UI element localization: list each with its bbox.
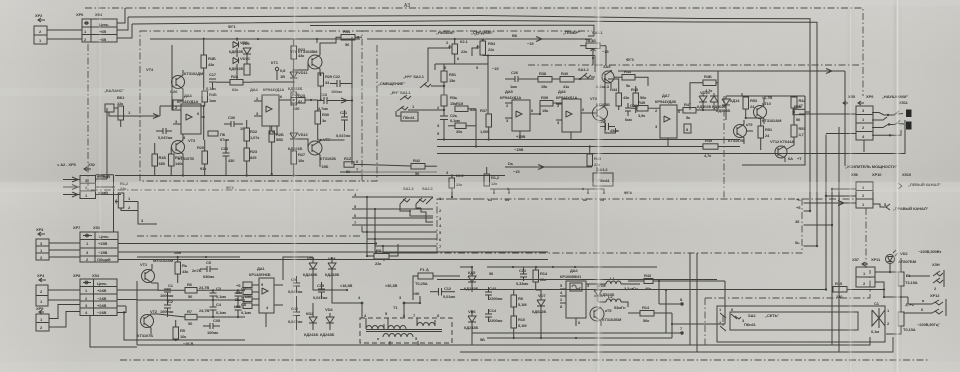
wire X53 -15 out bbox=[118, 251, 548, 253]
contact K2.2 bbox=[446, 170, 464, 198]
wire drop to mains a bbox=[689, 253, 691, 345]
capacitor C40 bbox=[288, 296, 302, 330]
wire mid pot bus bbox=[483, 54, 595, 95]
resistor R28 bbox=[269, 99, 295, 175]
resistor R6 bbox=[158, 282, 245, 299]
wire X56 pins bbox=[826, 188, 886, 207]
resistor R15 bbox=[833, 281, 885, 299]
resistor R8 22k bbox=[367, 244, 398, 266]
wire third rail bbox=[310, 25, 594, 36]
connector XP4 bbox=[36, 273, 48, 306]
block FG3 bottom dash-dot bbox=[437, 198, 862, 200]
capacitor C6 bbox=[156, 128, 172, 134]
wire C1 to box bbox=[866, 306, 893, 314]
wire bottom filter rail bbox=[150, 339, 245, 341]
wire X54 row2 out bbox=[117, 24, 132, 38]
block FG2 dash-dot border bbox=[140, 24, 362, 190]
wire XP3 rows to X53 bbox=[49, 243, 80, 257]
capacitor C22 bbox=[330, 74, 352, 94]
switch SA2 contacts bbox=[717, 307, 858, 331]
wire bias arrow line bbox=[505, 161, 592, 174]
block tone-control dash-dot border bbox=[362, 31, 592, 181]
connector XP12 arrows bbox=[918, 298, 943, 305]
resistor R35 82k bbox=[444, 101, 476, 112]
mains dash-dot enclosure bbox=[705, 270, 870, 345]
capacitor C8f bbox=[235, 300, 252, 317]
transformer core bbox=[366, 330, 442, 332]
wire bottom bus1 bbox=[137, 337, 870, 345]
resistor R11ps bbox=[628, 305, 672, 323]
wire DA7 out to right bbox=[618, 69, 845, 111]
capacitor C05 bbox=[203, 318, 221, 335]
regulator DA1 bbox=[234, 266, 283, 327]
wire bridge to transformer bbox=[313, 278, 363, 304]
wire VT7 links bbox=[297, 97, 344, 148]
wire FG2 vertical feed left bbox=[160, 45, 172, 116]
wire X57 to LED bbox=[875, 272, 898, 298]
wire +6V rail top bbox=[128, 16, 810, 212]
inductor L1 bbox=[592, 276, 640, 291]
wire X54 header out bbox=[117, 8, 125, 23]
terminal 8 bbox=[658, 280, 684, 306]
node FG4 pin ladder bbox=[439, 196, 442, 249]
wire mains feed b bbox=[460, 289, 826, 291]
label right channel bbox=[884, 202, 929, 211]
resistor R10b bbox=[152, 143, 166, 176]
wire preamp out bus3 bbox=[352, 213, 433, 218]
wire out cluster links bbox=[726, 96, 764, 131]
resistor R55 bbox=[787, 112, 806, 149]
resistor R26 bbox=[291, 92, 318, 111]
resistor R30 bbox=[315, 100, 330, 140]
capacitor C2f bbox=[160, 299, 174, 317]
transformer T1 secondary bbox=[377, 334, 418, 342]
resistor R38 bbox=[538, 71, 560, 89]
diode VD7 bbox=[532, 290, 546, 338]
wire right fan vertical 3 bbox=[838, 127, 840, 352]
sheet title A3 bbox=[404, 3, 410, 9]
wire top filter rail bbox=[137, 256, 240, 258]
capacitor C26 bbox=[505, 70, 538, 89]
resistor R40 bbox=[560, 71, 594, 89]
resistor R54 out bbox=[793, 104, 810, 122]
wire XP2 to X54 row1 bbox=[47, 29, 82, 31]
transistor VT6 bbox=[290, 48, 322, 76]
resistor R14 bbox=[533, 267, 548, 290]
wire filter block verticals bbox=[143, 258, 240, 287]
wire drop to mains b bbox=[696, 253, 698, 352]
diode VD3 bbox=[325, 256, 339, 278]
resistor R43b bbox=[614, 69, 648, 88]
LED VD2 bbox=[886, 250, 917, 273]
switch SA1.1 VCh bbox=[390, 90, 412, 100]
resistor R16 emitter bbox=[202, 91, 217, 106]
capacitor C24 bbox=[440, 113, 460, 141]
diode VD10 pair bbox=[697, 90, 726, 111]
potentiometer R60 tembr bbox=[580, 38, 609, 58]
resistor R37 bbox=[480, 95, 492, 141]
connector X53 table bbox=[73, 225, 118, 262]
connector X52 bbox=[57, 162, 110, 199]
block FG5 dash-dot right bbox=[865, 208, 867, 268]
terminal 7 bbox=[665, 289, 684, 335]
wire volume feed with arrow bbox=[367, 33, 592, 46]
resistor R52 bbox=[791, 96, 806, 112]
wire XP4 to X54 bbox=[48, 289, 80, 291]
transformer T1 winding B bbox=[388, 313, 406, 329]
wire VT6 base feed bbox=[252, 62, 308, 83]
resistor R3 bbox=[175, 257, 188, 283]
label TEMBR bbox=[563, 30, 603, 36]
wire X55 pins left bbox=[799, 114, 856, 134]
jack X3N bbox=[906, 270, 944, 291]
label headphone jack bbox=[863, 143, 865, 148]
transistor VT5 bbox=[586, 307, 622, 326]
resistor R10ps bbox=[511, 313, 527, 338]
wire drop to power b bbox=[374, 208, 376, 251]
resistor R29 bbox=[318, 73, 333, 97]
transistor VT7 bbox=[308, 137, 336, 162]
resistor R9ps bbox=[511, 290, 527, 313]
switch SA3.2 bbox=[593, 167, 613, 186]
block FG4 dash-dot border bbox=[88, 190, 802, 253]
block FG3 dash-dot border bbox=[528, 57, 860, 65]
wire ladder rail 5 bbox=[362, 226, 437, 233]
wire ps links bbox=[487, 267, 541, 290]
wire ladder rail 7 bbox=[375, 245, 437, 253]
resistor R53 bbox=[743, 96, 758, 118]
wire +15V mid rail bbox=[437, 134, 740, 140]
wire ps out vertical bbox=[671, 281, 725, 338]
frame border FG1 dash-dot bbox=[85, 8, 863, 190]
wire C22 to edge bbox=[321, 84, 353, 102]
wire FG4 stub 2 bbox=[796, 205, 811, 212]
wire FG2 inner links bbox=[160, 75, 205, 177]
wire FG4 stub 4 bbox=[795, 240, 818, 247]
wire terminal7 bus bbox=[472, 332, 666, 334]
testpoint KT1 bbox=[271, 60, 286, 80]
label -15V bbox=[319, 162, 328, 169]
capacitor C21 bbox=[336, 110, 350, 138]
resistor R44 bbox=[610, 86, 629, 110]
label 18v bbox=[358, 283, 397, 300]
wire balance bus bbox=[115, 175, 505, 177]
resistor R25 bbox=[291, 84, 306, 105]
wire ladder rail 6 bbox=[367, 238, 437, 240]
connector X54 table bottom bbox=[73, 273, 117, 316]
wire VT6 collector to R34 bbox=[317, 37, 341, 48]
wire X53 common out bbox=[118, 258, 548, 260]
capacitor C5t bbox=[200, 260, 218, 279]
connector XP12 arrow2 bbox=[918, 299, 946, 316]
resistor R40k bbox=[628, 273, 725, 291]
diode VD6 bbox=[464, 309, 478, 345]
label SMESHCHENIE bbox=[378, 81, 405, 86]
jack X511 blocks bbox=[899, 100, 912, 130]
wire XP2 to X54 row2 bbox=[47, 38, 82, 40]
resistor R34b bbox=[437, 95, 458, 116]
op-amp DA4 bbox=[250, 87, 291, 134]
op-amp DA5 bbox=[500, 89, 540, 140]
wire X55 jack right bbox=[872, 111, 904, 137]
switch SA1.2 bbox=[578, 67, 595, 80]
wire mains feed a bbox=[437, 279, 717, 281]
diode VD4 bbox=[320, 307, 334, 337]
capacitor C17 bbox=[206, 72, 217, 91]
timer DA2 bbox=[560, 268, 592, 326]
wire mains right links bbox=[885, 306, 920, 337]
diode VD10b bbox=[229, 48, 250, 79]
capacitor C28 bbox=[598, 119, 619, 133]
wire ps top bus bbox=[487, 266, 657, 276]
capacitor C10b bbox=[221, 140, 235, 176]
resistor R34 bbox=[317, 29, 362, 84]
resistor R24 bbox=[216, 74, 252, 92]
resistor R27 bbox=[291, 144, 306, 177]
capacitor C4f bbox=[210, 300, 227, 317]
wire right fan vertical 1 bbox=[825, 135, 827, 291]
fuse F1m bbox=[898, 258, 918, 297]
switch contact lower bbox=[397, 104, 445, 111]
transistor VT1 bbox=[140, 258, 174, 283]
diode VD14 bbox=[716, 96, 740, 120]
label power amp bbox=[845, 164, 941, 189]
label XP12 bbox=[930, 293, 940, 298]
wire transformer top feeds bbox=[362, 290, 445, 318]
transistor VT3 bbox=[158, 135, 196, 161]
potentiometer R54 mid bbox=[472, 39, 496, 56]
wire +24 rail top bbox=[137, 280, 550, 282]
wire FG2 top rail bbox=[150, 38, 360, 40]
wire F1 top link bbox=[826, 290, 920, 299]
block FG5 dash-dot top bbox=[137, 235, 362, 237]
wire bottom bus2 bbox=[460, 337, 893, 352]
wire preamp out bus2 bbox=[352, 204, 433, 209]
capacitor C29 bbox=[622, 103, 638, 122]
diode VD9 bbox=[229, 38, 248, 54]
wire XP4 row2 bbox=[48, 299, 80, 301]
wire VT8 bias bbox=[590, 78, 619, 133]
wire k-test line bbox=[488, 188, 605, 202]
wire right fan vertical 4 bbox=[844, 71, 846, 166]
op-amp DA3 bbox=[173, 93, 204, 140]
diode VD5 bbox=[460, 266, 478, 292]
op-amp DA7 bbox=[655, 93, 691, 147]
wire -15V mid rail bbox=[437, 147, 740, 153]
wire drop to power a bbox=[366, 196, 368, 257]
transistor VT2 bbox=[137, 309, 158, 338]
wire mid filter rail bbox=[137, 299, 245, 301]
connector XP2 bbox=[34, 13, 47, 44]
wire preamp out bus4 bbox=[352, 220, 433, 225]
resistor R22 bbox=[244, 120, 259, 141]
resistor R45 bbox=[631, 86, 646, 113]
label 2n7 bbox=[192, 268, 202, 273]
potentiometer RK1 balance bbox=[104, 88, 125, 127]
wire ps bottom bus bbox=[480, 337, 672, 342]
block FG5 dash-dot bottom bbox=[120, 359, 930, 361]
resistor R47 bbox=[683, 102, 703, 120]
capacitor C13 bbox=[516, 267, 528, 286]
wire transformer bottom leads bbox=[390, 341, 418, 345]
switch box PKn41 bbox=[396, 111, 418, 121]
diode VD9 bbox=[242, 41, 251, 75]
resistor R39 bbox=[539, 95, 562, 115]
potentiometer RK2 bbox=[96, 181, 158, 224]
inductor L2 bbox=[598, 294, 628, 310]
diode VD2b bbox=[304, 303, 318, 337]
wire X53 +15 out bbox=[118, 242, 377, 244]
wire sa2 left drop bbox=[608, 338, 616, 352]
op-amp DA6 bbox=[556, 89, 597, 140]
resistor R23 top bbox=[291, 39, 306, 70]
resistor R46 bbox=[631, 100, 660, 118]
transistor VT8a mute bbox=[596, 64, 614, 89]
resistor R23b bbox=[244, 141, 258, 177]
output stage enclosure bbox=[742, 96, 805, 165]
connector XP5 bbox=[36, 306, 49, 331]
wire -6V rail top bbox=[132, 21, 817, 247]
switch SA2.1 NCh bbox=[403, 74, 445, 88]
wire FG4 stub 3 bbox=[795, 219, 833, 226]
resistor R41 bbox=[484, 167, 500, 186]
resistor R17 bbox=[169, 147, 184, 176]
resistor R7 bbox=[158, 308, 245, 326]
wire X54b bottom down bbox=[90, 316, 137, 348]
wire tembr drop bbox=[592, 46, 606, 65]
resistor R20 bbox=[197, 140, 208, 176]
diode VD1 bbox=[303, 256, 317, 278]
switch SA1.2 SA2.2 cluster bbox=[400, 186, 433, 222]
diode VD12 bbox=[288, 131, 308, 151]
transistor VT9 bbox=[728, 120, 753, 144]
wire RK1 wiper to FG2 bbox=[125, 110, 160, 119]
transistor VT8 bbox=[590, 95, 610, 128]
wire X54b out rails bbox=[117, 290, 158, 340]
connector XP3 bbox=[36, 227, 49, 260]
wire X54 row1 out bbox=[117, 17, 128, 30]
resistor R18 bbox=[208, 131, 229, 142]
label 220v50 bbox=[917, 322, 940, 327]
transformer T1 winding A bbox=[364, 311, 388, 329]
connector X55 XP9 headphones bbox=[843, 94, 908, 140]
transformer T1 dashed box bbox=[360, 305, 452, 343]
wire preamp out bus1 bbox=[352, 192, 433, 197]
capacitor C1f bbox=[160, 283, 174, 300]
connector X54 table top bbox=[76, 12, 117, 42]
connector X56 XP10 bbox=[833, 177, 873, 208]
capacitor C43 bbox=[484, 286, 502, 302]
wire k-box top bbox=[435, 64, 488, 70]
wire out top to nest bbox=[720, 66, 795, 96]
capacitor C15 bbox=[313, 282, 327, 300]
resistor R42 bbox=[362, 158, 437, 176]
label SREDNIE bbox=[471, 30, 494, 35]
capacitor C9 bbox=[288, 276, 302, 294]
potentiometer R50 bass with K2.1 bbox=[428, 38, 468, 82]
wire X55 bottom stub bbox=[863, 140, 865, 152]
transistor VT12 bbox=[770, 139, 802, 162]
label +26V bbox=[174, 250, 181, 255]
label NIZKIE bbox=[436, 30, 479, 36]
capacitor C1 mains bbox=[871, 301, 890, 334]
transistor VT4 bbox=[146, 67, 204, 94]
label 220v300w bbox=[918, 249, 942, 267]
resistor R51b bbox=[758, 118, 773, 150]
amp filter block border bbox=[137, 281, 720, 345]
capacitor C14 bbox=[485, 308, 502, 323]
resistor R41 bbox=[340, 101, 362, 175]
capacitor C7f bbox=[235, 286, 252, 300]
switch SA2 box bbox=[717, 306, 885, 342]
resistor R36 bbox=[437, 109, 477, 148]
capacitor C3f bbox=[210, 286, 227, 300]
wire F2 bottom to arrows bbox=[900, 296, 918, 313]
capacitor C18 bbox=[318, 92, 352, 111]
resistor R48 bbox=[690, 71, 718, 110]
resistor R43 bbox=[587, 145, 602, 167]
wire RK1 bottom feed bbox=[96, 108, 107, 179]
wire mid rail 3 bbox=[437, 120, 905, 154]
fuse F1ps bbox=[413, 267, 460, 300]
resistor R51 15k bbox=[441, 64, 457, 95]
resistor R5f bbox=[173, 320, 193, 346]
resistor R19 bbox=[201, 38, 216, 90]
wire bridge links bbox=[283, 257, 332, 330]
capacitor C12 bbox=[430, 286, 455, 299]
diode VD8 bbox=[594, 283, 614, 302]
fuse F2m bbox=[886, 297, 916, 334]
wire right fan vertical 2 bbox=[831, 189, 833, 345]
wire X52 common down bbox=[96, 175, 115, 232]
block FG3 inner divider bbox=[723, 96, 725, 199]
capacitor C30 bbox=[224, 115, 245, 131]
resistor R49 4.7k bbox=[703, 138, 718, 158]
transistor VT10 bbox=[754, 95, 783, 124]
wire XP5 stepped to X54 bbox=[49, 305, 80, 328]
diode VD11 bbox=[288, 70, 308, 91]
transformer T1 winding C bbox=[413, 313, 440, 326]
wire FG4 out arrow to X56 bbox=[796, 197, 856, 206]
connector X57 XP11 bbox=[852, 257, 881, 287]
